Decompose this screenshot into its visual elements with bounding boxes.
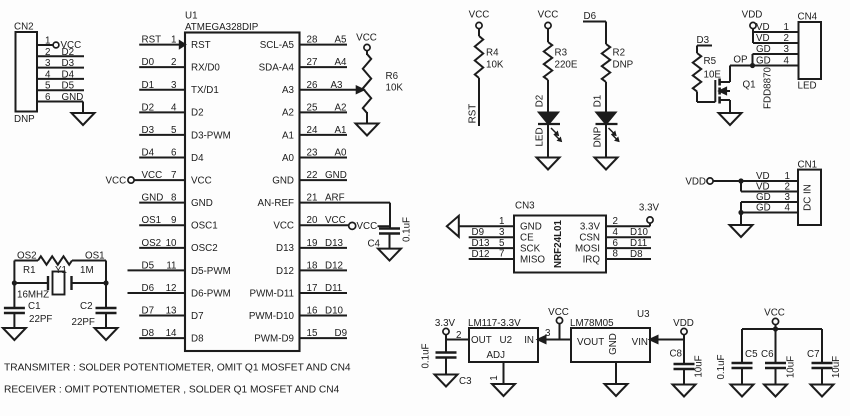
svg-text:D2: D2 bbox=[191, 108, 204, 119]
svg-text:3: 3 bbox=[784, 44, 790, 55]
wire C3 to ground bbox=[445, 358, 447, 375]
wire left down bbox=[13, 261, 15, 284]
U2 inner labels bbox=[471, 335, 534, 361]
label DNP rotated bbox=[593, 126, 604, 147]
C1 value 22PF bbox=[29, 314, 52, 325]
svg-text:220E: 220E bbox=[555, 60, 578, 71]
U1 reference label bbox=[185, 11, 198, 22]
svg-text:D13: D13 bbox=[325, 238, 344, 249]
wire VCC to R3 bbox=[547, 29, 549, 42]
svg-text:D5-PWM: D5-PWM bbox=[191, 266, 231, 277]
U1 pin 16 D10 bbox=[249, 306, 347, 322]
svg-text:D6: D6 bbox=[142, 283, 155, 294]
svg-text:TX/D1: TX/D1 bbox=[191, 85, 219, 96]
VCC label above R3 bbox=[538, 10, 559, 21]
svg-text:A4: A4 bbox=[335, 57, 348, 68]
U1 pin 3 D1 bbox=[139, 80, 219, 96]
svg-text:GND: GND bbox=[520, 222, 542, 233]
U3 inner labels bbox=[577, 333, 648, 355]
connector CN2 body bbox=[16, 32, 38, 112]
CN1 pin 3 wire GD bbox=[741, 192, 798, 213]
DC IN label rotated bbox=[803, 184, 814, 211]
svg-text:LED: LED bbox=[535, 127, 546, 146]
svg-text:RST: RST bbox=[468, 104, 479, 124]
svg-text:OUT: OUT bbox=[471, 335, 492, 346]
wire R3 to LED D2 bbox=[547, 80, 549, 113]
VDD label above CN4 bbox=[742, 10, 763, 21]
wire C6 to ground bbox=[775, 368, 777, 385]
LED D2 light arrows bbox=[551, 128, 562, 142]
svg-text:VCC: VCC bbox=[538, 10, 559, 21]
note line 1 bbox=[4, 363, 351, 374]
U1 pin 21 ARF bbox=[258, 193, 390, 229]
connector CN2 label bbox=[14, 22, 34, 33]
connector CN4 body bbox=[799, 22, 822, 79]
CN2 pin 3 wire to D3 bbox=[37, 58, 84, 69]
svg-text:4: 4 bbox=[613, 227, 619, 238]
svg-text:A5: A5 bbox=[335, 35, 348, 46]
svg-text:D7: D7 bbox=[142, 306, 155, 317]
svg-text:11: 11 bbox=[166, 260, 176, 271]
svg-text:VCC: VCC bbox=[191, 175, 212, 186]
wire C2 to ground bbox=[105, 313, 107, 328]
ground below C6 bbox=[764, 385, 787, 397]
svg-text:D13: D13 bbox=[472, 238, 491, 249]
node 3.3V at U2 out bbox=[435, 318, 456, 335]
svg-text:GD: GD bbox=[756, 203, 771, 214]
U1 pin 6 D4 bbox=[139, 148, 204, 164]
U1 pin 17 D11 bbox=[250, 283, 347, 299]
svg-text:D11: D11 bbox=[325, 283, 342, 294]
svg-text:VCC: VCC bbox=[325, 215, 346, 226]
svg-text:D10: D10 bbox=[630, 227, 649, 238]
capacitor C4 bbox=[367, 229, 400, 250]
svg-text:3: 3 bbox=[499, 227, 505, 238]
U1 pin 22 GND bbox=[272, 170, 347, 186]
svg-text:FDD8870: FDD8870 bbox=[763, 66, 774, 108]
net label D1 rotated bbox=[593, 95, 604, 108]
svg-text:0.1uF: 0.1uF bbox=[716, 354, 727, 379]
U1 pin 27 A4 bbox=[259, 57, 347, 73]
U1 pin 7 VCC bbox=[106, 170, 212, 186]
svg-text:CN2: CN2 bbox=[14, 22, 34, 33]
svg-text:VD: VD bbox=[756, 33, 770, 44]
svg-text:SCL-A5: SCL-A5 bbox=[260, 40, 295, 51]
svg-text:GND: GND bbox=[272, 175, 294, 186]
svg-text:5: 5 bbox=[171, 125, 177, 136]
node 3.3V at CN3 bbox=[639, 203, 660, 227]
CN4 pin 4 GD wire bbox=[753, 56, 799, 67]
node VCC for R3 bbox=[545, 22, 551, 28]
svg-text:A3: A3 bbox=[331, 80, 344, 91]
svg-text:D8: D8 bbox=[630, 249, 643, 260]
ground below C4 bbox=[378, 249, 401, 261]
ground below C7 bbox=[811, 385, 834, 397]
ground below R6 bbox=[356, 124, 379, 136]
CN2 pin 6 wire GND bbox=[37, 92, 83, 113]
svg-text:VDD: VDD bbox=[673, 318, 694, 329]
R1 value 1M bbox=[80, 265, 94, 276]
net label D2 rotated bbox=[535, 95, 546, 108]
IC U1 body bbox=[185, 33, 300, 352]
C2 value 22PF bbox=[72, 317, 95, 328]
ground below LED D1 bbox=[595, 158, 618, 170]
capacitor C3 bbox=[436, 353, 473, 388]
CN1 pin 2 wire VD bbox=[741, 181, 798, 193]
svg-text:ADJ: ADJ bbox=[487, 350, 506, 361]
C7 branch wire bbox=[821, 329, 823, 363]
svg-text:C3: C3 bbox=[459, 376, 472, 387]
U3 VIN arrow bbox=[650, 336, 658, 343]
svg-text:D12: D12 bbox=[325, 260, 343, 271]
Y1 value 16MHZ bbox=[17, 290, 49, 301]
wire D3 stub bbox=[697, 46, 712, 54]
ground below Q1 bbox=[719, 113, 742, 125]
U1 pin 20 VCC bbox=[273, 215, 390, 232]
capacitor C7 bbox=[807, 349, 833, 368]
CN3 pin 5 wire D13 bbox=[469, 238, 541, 255]
svg-text:VDD: VDD bbox=[685, 177, 706, 188]
U1 pin 2 D0 bbox=[139, 57, 220, 73]
wire R4 down to RST net bbox=[478, 78, 480, 126]
svg-text:VD: VD bbox=[756, 22, 770, 33]
regulator U3 body bbox=[571, 328, 650, 362]
svg-text:R6: R6 bbox=[386, 71, 399, 82]
svg-text:D2: D2 bbox=[142, 102, 155, 113]
svg-text:2: 2 bbox=[613, 216, 618, 227]
svg-text:D6: D6 bbox=[584, 11, 597, 22]
CN2 DNP label bbox=[14, 114, 35, 125]
svg-text:D4: D4 bbox=[191, 153, 204, 164]
node VDD for CN4 bbox=[750, 22, 756, 28]
svg-text:R4: R4 bbox=[486, 48, 499, 59]
svg-text:10uF: 10uF bbox=[786, 356, 797, 378]
svg-text:Q1: Q1 bbox=[743, 80, 756, 91]
node VCC for R6 bbox=[364, 44, 370, 50]
node VDD at CN1 bbox=[707, 178, 713, 184]
connector CN1 label bbox=[798, 160, 818, 171]
U1 part name ATMEGA328DIP bbox=[185, 22, 259, 33]
svg-text:5: 5 bbox=[499, 238, 505, 249]
U1 pin 14 D8 bbox=[139, 328, 204, 344]
U1 pin 10 OS2 bbox=[139, 238, 217, 254]
U1 pin 5 D3 bbox=[139, 125, 231, 141]
U1 pin 4 D2 bbox=[139, 102, 203, 118]
svg-text:VIN: VIN bbox=[632, 337, 648, 348]
svg-text:D2: D2 bbox=[535, 95, 546, 108]
node VCC between U2 U3 bbox=[548, 307, 569, 340]
potentiometer R6 bbox=[363, 54, 404, 113]
svg-text:D2: D2 bbox=[62, 47, 75, 58]
wire right down bbox=[105, 261, 107, 284]
U2 pin 1 ADJ wire bbox=[489, 362, 504, 384]
svg-text:C7: C7 bbox=[807, 349, 820, 360]
Q1 reference label bbox=[743, 80, 756, 91]
svg-text:DNP: DNP bbox=[613, 60, 634, 71]
svg-text:GD: GD bbox=[756, 56, 771, 67]
U3 part label LM78M05 bbox=[570, 318, 614, 329]
wire 3.3V to C3 bbox=[445, 340, 447, 353]
svg-text:VD: VD bbox=[756, 171, 770, 182]
svg-text:D9: D9 bbox=[335, 328, 348, 339]
svg-text:6: 6 bbox=[45, 92, 51, 103]
svg-text:1: 1 bbox=[489, 375, 500, 380]
net label OS1 bbox=[85, 251, 105, 262]
LED D2 diode bbox=[538, 113, 560, 125]
U1 pin 19 D13 bbox=[276, 238, 347, 254]
svg-text:12: 12 bbox=[166, 283, 177, 294]
VCC label above R6 bbox=[356, 33, 377, 44]
C6 branch wire bbox=[775, 329, 777, 363]
svg-text:22PF: 22PF bbox=[29, 314, 52, 325]
U1 pin 28 A5 bbox=[260, 35, 347, 51]
VCC label above R4 bbox=[469, 10, 490, 21]
net label D3 above R5 bbox=[697, 35, 710, 46]
svg-text:U2: U2 bbox=[500, 335, 513, 346]
svg-text:D3: D3 bbox=[142, 125, 155, 136]
svg-text:GD: GD bbox=[756, 192, 771, 203]
svg-text:OS1: OS1 bbox=[142, 215, 162, 226]
ground below C1 bbox=[3, 328, 26, 340]
svg-text:TRANSMITER : SOLDER POTENTIOME: TRANSMITER : SOLDER POTENTIOMETER, OMIT … bbox=[4, 363, 351, 374]
svg-text:ATMEGA328DIP: ATMEGA328DIP bbox=[185, 22, 259, 33]
svg-text:VCC: VCC bbox=[142, 170, 163, 181]
svg-text:RST: RST bbox=[191, 40, 211, 51]
wire R6 to ground bbox=[366, 112, 368, 124]
ground below C8 bbox=[673, 385, 696, 397]
wire top left bbox=[14, 260, 38, 262]
ground below C5 bbox=[731, 385, 754, 397]
ground below U3 bbox=[605, 384, 628, 396]
U1 pin 8 GND bbox=[139, 193, 213, 209]
svg-text:1: 1 bbox=[45, 36, 50, 47]
svg-text:13: 13 bbox=[166, 306, 177, 317]
svg-text:3: 3 bbox=[785, 192, 791, 203]
NRF24L01 label rotated bbox=[553, 219, 564, 267]
wire D6 stub bbox=[583, 22, 606, 45]
svg-text:3.3V: 3.3V bbox=[435, 318, 456, 329]
CN3 pin 2 wire 3.3V bbox=[580, 216, 650, 233]
wire left to C1 bbox=[13, 283, 15, 308]
svg-text:3: 3 bbox=[545, 328, 551, 339]
svg-text:GND: GND bbox=[142, 193, 164, 204]
svg-text:1: 1 bbox=[499, 216, 504, 227]
resistor R4 bbox=[475, 36, 504, 78]
svg-text:DNP: DNP bbox=[593, 126, 604, 147]
net label OS2 bbox=[17, 251, 37, 262]
svg-text:OSC2: OSC2 bbox=[191, 243, 218, 254]
svg-text:A3: A3 bbox=[282, 85, 295, 96]
wire VCC bus bbox=[742, 328, 822, 330]
U3 GND wire bbox=[615, 362, 617, 384]
svg-text:4: 4 bbox=[45, 69, 51, 80]
svg-text:D13: D13 bbox=[276, 243, 295, 254]
svg-text:D1: D1 bbox=[593, 95, 604, 108]
svg-text:U1: U1 bbox=[185, 11, 198, 22]
svg-text:VD: VD bbox=[756, 182, 770, 193]
CN3 pin 6 wire D11 bbox=[575, 238, 651, 255]
svg-text:MISO: MISO bbox=[520, 254, 545, 265]
svg-text:3: 3 bbox=[171, 80, 177, 91]
resistor R1 bbox=[23, 256, 72, 276]
node OP junction bbox=[733, 55, 755, 69]
svg-text:8: 8 bbox=[171, 193, 177, 204]
wire R2 to LED D1 bbox=[605, 82, 607, 113]
svg-text:3.3V: 3.3V bbox=[580, 222, 601, 233]
svg-text:C1: C1 bbox=[28, 301, 41, 312]
svg-text:VCC: VCC bbox=[764, 308, 785, 319]
svg-text:CN4: CN4 bbox=[798, 12, 818, 23]
U1 pin 13 D7 bbox=[139, 306, 203, 322]
svg-text:4: 4 bbox=[171, 102, 177, 113]
svg-text:10: 10 bbox=[166, 238, 177, 249]
svg-text:VDD: VDD bbox=[742, 10, 763, 21]
ground below LED D2 bbox=[537, 158, 560, 170]
U2 part label LM117-3.3V bbox=[468, 318, 521, 329]
crystal Y1 bbox=[14, 265, 106, 295]
svg-text:RST: RST bbox=[142, 35, 162, 46]
svg-text:2: 2 bbox=[45, 47, 50, 58]
svg-text:VOUT: VOUT bbox=[577, 337, 604, 348]
svg-text:VCC: VCC bbox=[106, 175, 127, 186]
svg-text:GND: GND bbox=[608, 333, 619, 355]
CN3 pin 7 wire D12 bbox=[469, 249, 546, 266]
U3 reference label bbox=[637, 309, 650, 320]
label LED rotated bbox=[535, 127, 546, 146]
svg-text:D7: D7 bbox=[191, 311, 204, 322]
svg-text:D1: D1 bbox=[142, 80, 155, 91]
svg-text:D3: D3 bbox=[697, 35, 710, 46]
svg-text:10uF: 10uF bbox=[831, 356, 842, 378]
CN4 pin 3 GD wire bbox=[753, 44, 799, 66]
connector CN3 label bbox=[515, 201, 535, 212]
svg-text:D11: D11 bbox=[630, 238, 647, 249]
junction dot VCC bus bbox=[773, 326, 778, 331]
svg-text:VCC: VCC bbox=[356, 33, 377, 44]
svg-text:LED: LED bbox=[798, 81, 817, 92]
svg-text:D8: D8 bbox=[142, 328, 155, 339]
wire OP to Q1 drain bbox=[730, 65, 753, 67]
svg-text:VCC: VCC bbox=[469, 10, 490, 21]
svg-text:D12: D12 bbox=[472, 249, 490, 260]
svg-text:R1: R1 bbox=[23, 265, 36, 276]
svg-text:2: 2 bbox=[785, 182, 790, 193]
ground below CN1 bbox=[730, 225, 753, 237]
svg-text:PWM-D11: PWM-D11 bbox=[250, 288, 294, 299]
svg-text:GND: GND bbox=[325, 170, 347, 181]
capacitor C8 bbox=[669, 349, 694, 370]
svg-text:14: 14 bbox=[166, 328, 177, 339]
U1 pin 25 A2 bbox=[282, 102, 347, 118]
junction dot VD bbox=[738, 178, 743, 183]
CN2 pin 1 wire bbox=[37, 36, 53, 47]
LED D1 light arrows bbox=[609, 128, 620, 142]
svg-text:OSC1: OSC1 bbox=[191, 221, 218, 232]
svg-text:C8: C8 bbox=[669, 349, 682, 360]
wire C1 to ground bbox=[13, 313, 15, 328]
CN3 pin 1 wire GND bbox=[459, 216, 542, 233]
svg-text:9: 9 bbox=[171, 215, 176, 226]
CN1 pin 1 wire VD bbox=[741, 171, 798, 182]
note line 2 bbox=[4, 385, 340, 396]
wire C4 to ground bbox=[389, 234, 391, 249]
U1 pin 15 D9 bbox=[254, 328, 347, 344]
capacitor C5 bbox=[732, 349, 759, 368]
capacitor C1 bbox=[4, 301, 41, 313]
svg-text:C2: C2 bbox=[80, 301, 93, 312]
svg-text:2: 2 bbox=[456, 330, 461, 341]
svg-text:D4: D4 bbox=[142, 148, 155, 159]
resistor R2 bbox=[602, 44, 634, 82]
transistor Q1 FDD8870 bbox=[715, 66, 730, 114]
LED D1 diode bbox=[596, 113, 618, 125]
svg-text:D6-PWM: D6-PWM bbox=[191, 288, 231, 299]
svg-text:DNP: DNP bbox=[14, 114, 35, 125]
svg-text:ARF: ARF bbox=[325, 193, 345, 204]
wire top right bbox=[72, 260, 106, 262]
junction dot GD bbox=[738, 210, 743, 215]
net label RST rotated bbox=[468, 104, 479, 124]
U1 pin 23 A0 bbox=[282, 148, 347, 164]
U1 pin 26 A3 bbox=[282, 80, 363, 96]
svg-text:A1: A1 bbox=[335, 125, 347, 136]
svg-text:C5: C5 bbox=[745, 349, 758, 360]
svg-text:MOSI: MOSI bbox=[575, 244, 600, 255]
wire VDD to C8 bbox=[683, 340, 685, 365]
svg-text:10uF: 10uF bbox=[694, 355, 705, 377]
wire R5 to Q1 gate bbox=[697, 92, 715, 103]
ground left of CN3 bbox=[447, 216, 459, 237]
svg-text:1: 1 bbox=[785, 171, 790, 182]
svg-text:1M: 1M bbox=[80, 265, 94, 276]
CN2 pin 5 wire to D5 bbox=[37, 81, 84, 92]
node VCC at CN2 pin 1 bbox=[53, 40, 81, 51]
wire IN to VOUT bbox=[546, 339, 572, 341]
ground below C2 bbox=[95, 328, 118, 340]
svg-text:D0: D0 bbox=[142, 57, 155, 68]
junction dot right bbox=[103, 280, 108, 285]
svg-text:5: 5 bbox=[45, 81, 51, 92]
svg-text:0.1uF: 0.1uF bbox=[421, 343, 432, 368]
svg-text:0.1uF: 0.1uF bbox=[402, 217, 413, 242]
wire C8 to ground bbox=[683, 369, 685, 385]
svg-text:10K: 10K bbox=[486, 60, 504, 71]
wire LED D1 to ground bbox=[605, 124, 607, 158]
U1 pin 12 D6 bbox=[128, 283, 231, 299]
wire right to C2 bbox=[105, 283, 107, 308]
C5 value 0.1uF bbox=[716, 354, 727, 379]
node VDD at U3 bbox=[673, 318, 694, 340]
C3 value 0.1uF bbox=[421, 343, 432, 368]
svg-text:16MHZ: 16MHZ bbox=[17, 290, 49, 301]
svg-text:PWM-D10: PWM-D10 bbox=[249, 311, 295, 322]
svg-text:6: 6 bbox=[171, 148, 177, 159]
wire VCC to R6 bbox=[366, 51, 368, 55]
svg-text:U3: U3 bbox=[637, 309, 650, 320]
svg-text:SCK: SCK bbox=[520, 244, 541, 255]
resistor R3 bbox=[544, 42, 578, 80]
svg-text:4: 4 bbox=[785, 203, 791, 214]
U2 pin 2 wire bbox=[446, 330, 469, 341]
CN1 pin 4 wire GD bbox=[741, 203, 798, 214]
svg-text:D3: D3 bbox=[62, 58, 75, 69]
svg-text:CN3: CN3 bbox=[515, 201, 535, 212]
svg-text:3: 3 bbox=[45, 58, 51, 69]
C4 value 0.1uF bbox=[402, 217, 413, 242]
wire C5 to ground bbox=[741, 368, 743, 385]
svg-text:2: 2 bbox=[171, 57, 176, 68]
svg-text:D4: D4 bbox=[62, 69, 75, 80]
